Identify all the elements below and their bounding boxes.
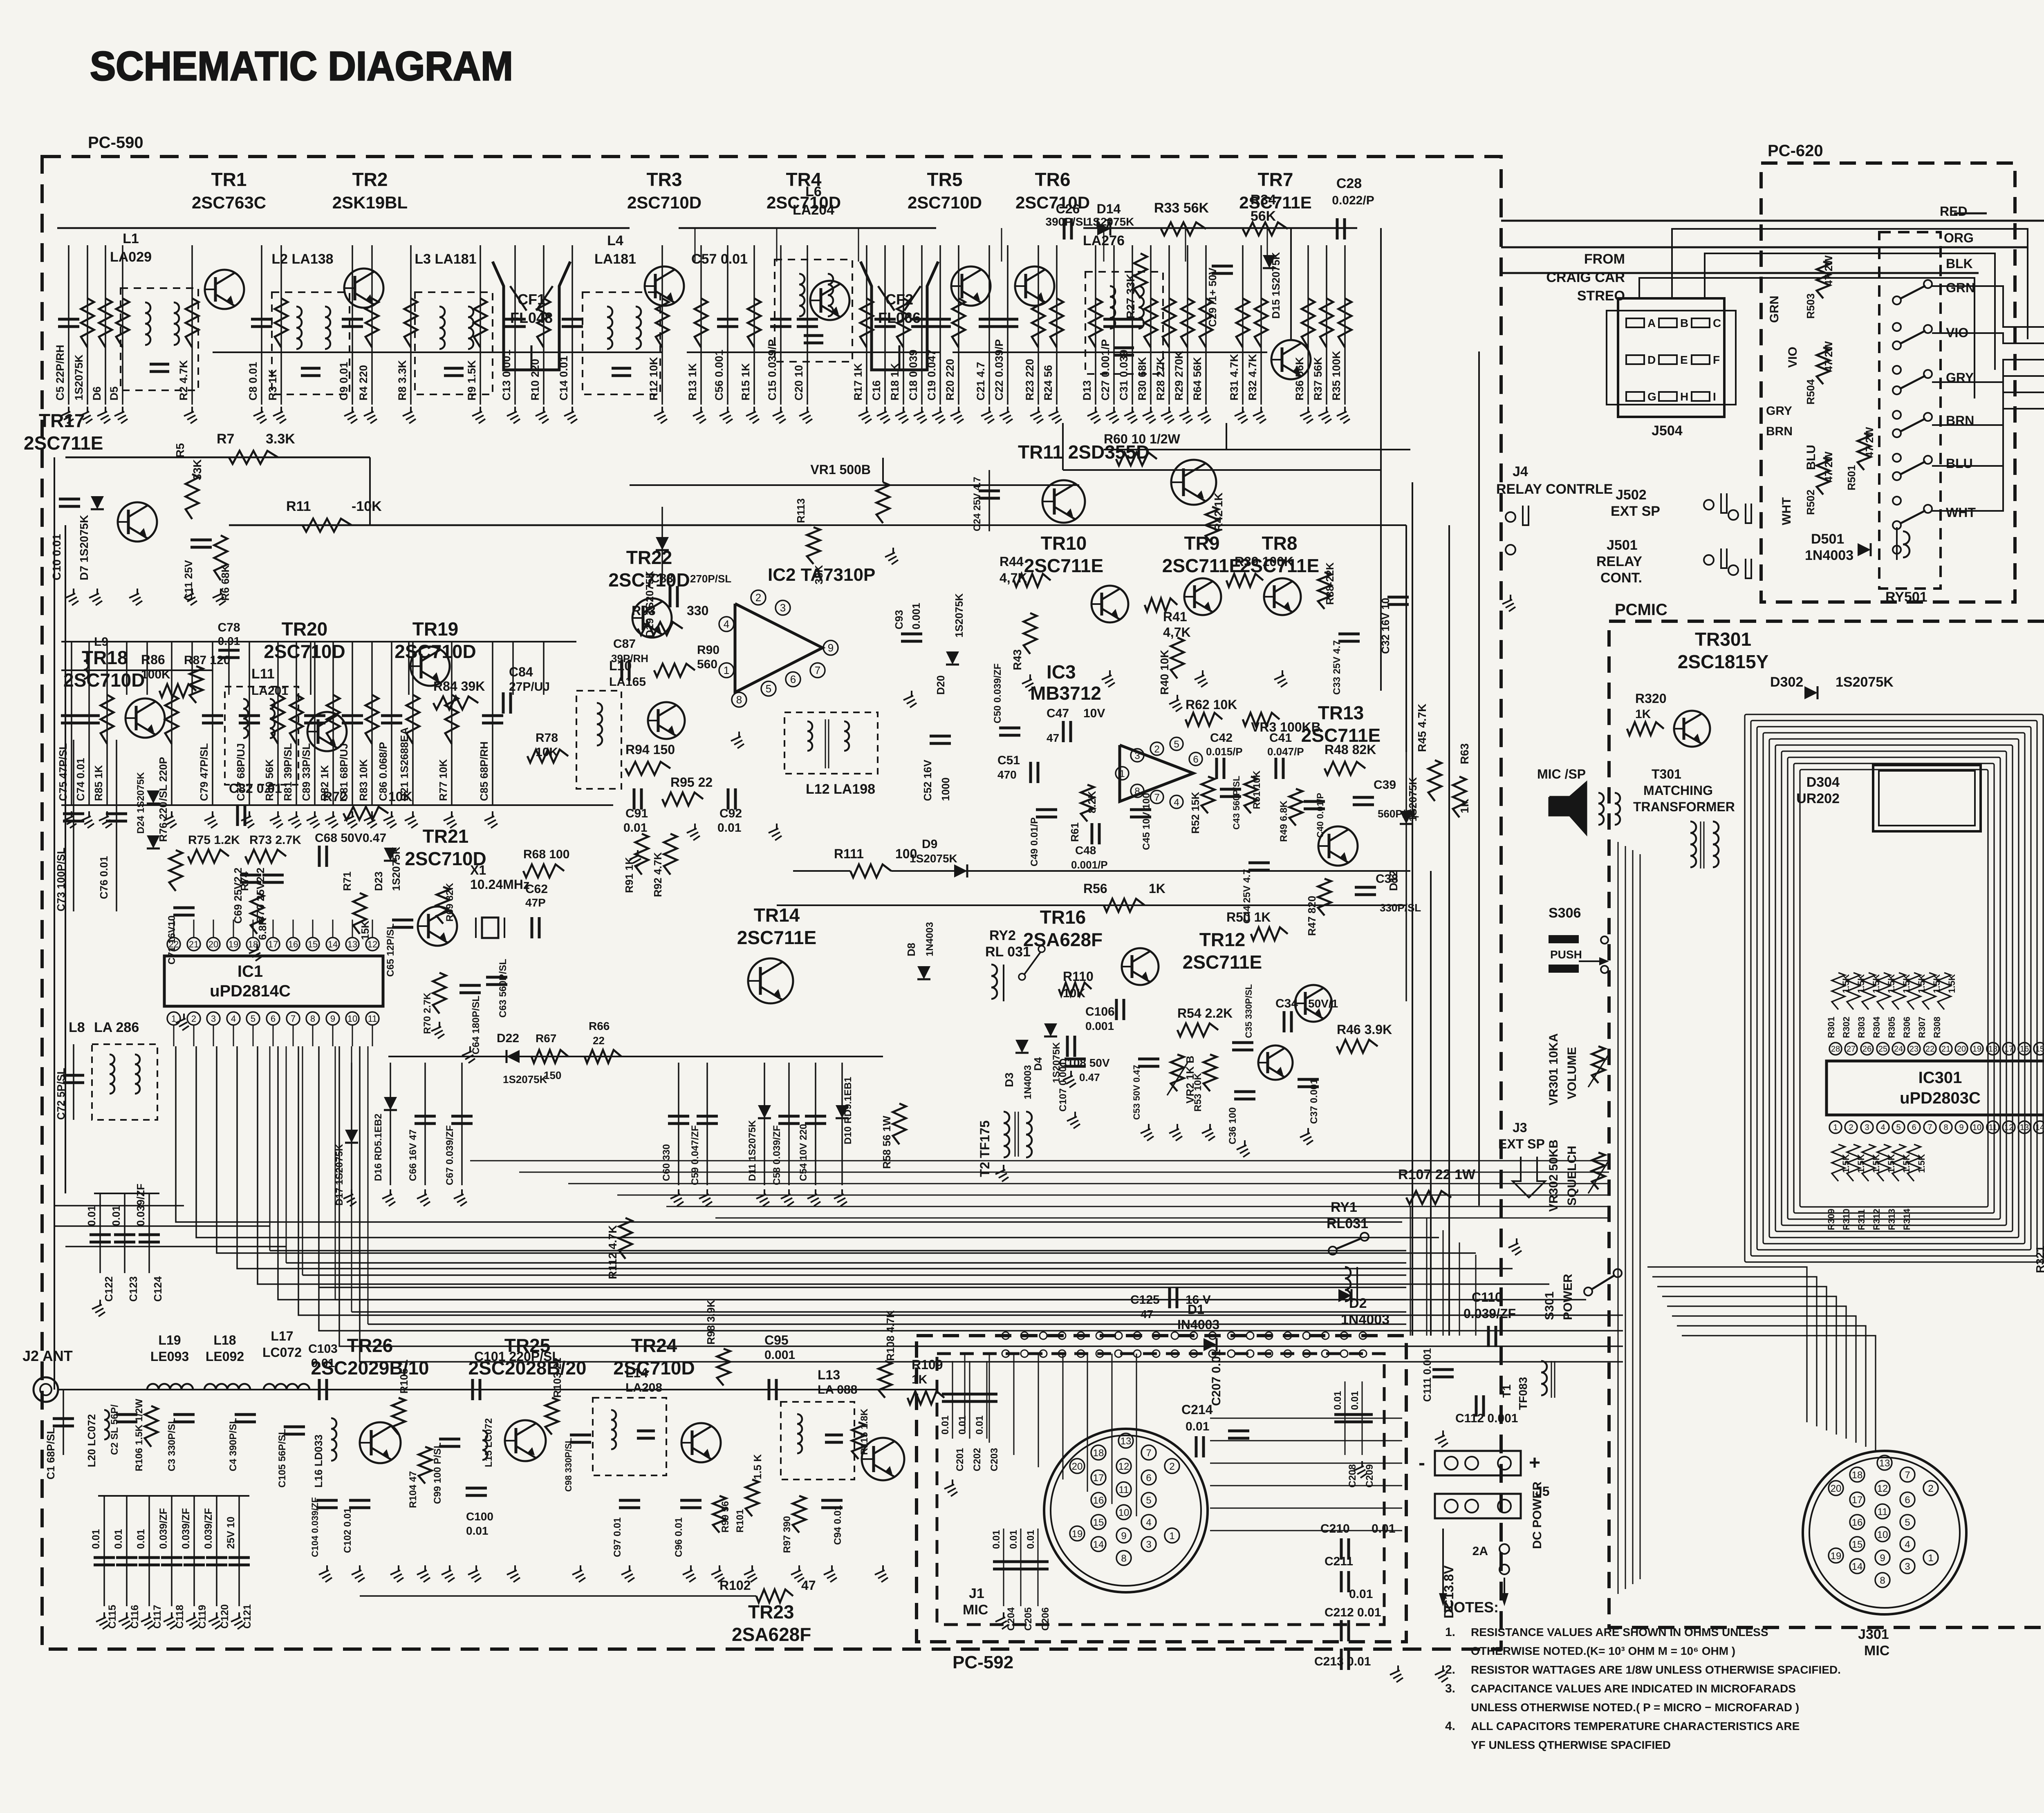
svg-text:L15 LC072: L15 LC072	[483, 1418, 494, 1467]
svg-text:R23 220: R23 220	[1024, 359, 1036, 401]
relay switch contact	[1893, 472, 1901, 480]
svg-text:R7: R7	[217, 431, 234, 447]
svg-text:0.01: 0.01	[1332, 1391, 1343, 1410]
svg-text:L16 LD033: L16 LD033	[312, 1435, 325, 1488]
svg-text:C43 560P/SL: C43 560P/SL	[1231, 776, 1242, 830]
svg-text:TR16: TR16	[1040, 906, 1086, 928]
svg-text:3: 3	[1146, 1539, 1151, 1550]
J1 pin 12	[1116, 1459, 1131, 1473]
transistor TR22	[632, 598, 672, 638]
inductor L9	[84, 652, 88, 661]
svg-text:R67: R67	[536, 1032, 556, 1045]
IC301 pin 4	[1877, 1121, 1889, 1133]
svg-text:4: 4	[231, 1014, 236, 1024]
capacitor C117 0.01	[148, 1496, 150, 1606]
transistor TR12b	[1258, 1045, 1293, 1080]
ground row IC1 right	[351, 1189, 352, 1195]
svg-text:R104 47: R104 47	[408, 1471, 419, 1508]
IC3 pin 8	[1131, 784, 1144, 797]
wire drop a	[1062, 423, 1064, 470]
svg-text:C50 0.039/ZF: C50 0.039/ZF	[992, 663, 1003, 723]
component C19 0.047	[939, 245, 941, 405]
svg-text:TR9: TR9	[1184, 533, 1220, 554]
svg-text:DC POWER: DC POWER	[1531, 1482, 1544, 1549]
IC2 pin 9	[823, 640, 838, 655]
svg-text:R66: R66	[589, 1020, 610, 1032]
IC2 pin 7	[810, 663, 825, 678]
svg-text:SQUELCH: SQUELCH	[1565, 1146, 1579, 1206]
svg-text:R503: R503	[1804, 293, 1817, 319]
svg-text:17: 17	[1852, 1495, 1863, 1506]
svg-text:0.039/ZF: 0.039/ZF	[134, 1184, 147, 1226]
inductor L15 LC072	[482, 1430, 487, 1440]
svg-text:C211: C211	[1325, 1555, 1353, 1568]
svg-text:D15 1S2075K: D15 1S2075K	[1270, 252, 1282, 319]
svg-text:D11 1S2075K: D11 1S2075K	[747, 1120, 758, 1181]
ground squelch	[1029, 674, 1031, 680]
svg-text:GRN: GRN	[1946, 280, 1975, 295]
resistor array R301-R308	[1832, 973, 1845, 1009]
svg-text:C31 0.039: C31 0.039	[1118, 349, 1130, 401]
wire RED	[1501, 220, 2044, 222]
svg-text:EXT SP: EXT SP	[1498, 1137, 1545, 1151]
svg-text:RY2: RY2	[989, 928, 1016, 943]
svg-text:18: 18	[1988, 1045, 1997, 1054]
IC1 pin 10	[346, 1012, 359, 1025]
transformer L11 LA201	[225, 687, 298, 785]
svg-text:12: 12	[368, 939, 377, 949]
svg-text:1.: 1.	[1445, 1625, 1455, 1639]
svg-text:C42: C42	[1210, 731, 1233, 745]
svg-text:12: 12	[2004, 1123, 2013, 1132]
resistor R47 820	[1318, 879, 1331, 915]
svg-text:2SC763C: 2SC763C	[192, 193, 266, 212]
svg-text:19: 19	[1831, 1551, 1842, 1562]
nested wiring loops PCMIC	[1745, 714, 2043, 1262]
svg-text:R102: R102	[719, 1578, 751, 1593]
svg-text:0.01: 0.01	[623, 821, 647, 835]
svg-text:OTHERWISE NOTED.(K= 10³ OHM: OTHERWISE NOTED.(K= 10³ OHM M = 10⁶ OHM …	[1471, 1645, 1735, 1657]
svg-text:C29 /1+ 50V: C29 /1+ 50V	[1206, 267, 1219, 327]
svg-text:2SK19BL: 2SK19BL	[332, 193, 408, 212]
capacitor C36 6.3V 100	[1234, 1090, 1255, 1093]
svg-text:17: 17	[2004, 1045, 2013, 1054]
capacitor C105 56P/SL	[284, 1426, 305, 1428]
svg-text:CF1: CF1	[518, 291, 545, 308]
resistor R66 22	[585, 1050, 621, 1063]
board outline PC-592	[917, 1336, 1406, 1642]
IC301 pin 27	[1845, 1043, 1857, 1055]
svg-text:R84 39K: R84 39K	[433, 679, 485, 694]
svg-text:1K: 1K	[912, 1373, 928, 1386]
svg-text:C3 330P/SL: C3 330P/SL	[166, 1418, 177, 1471]
svg-text:2: 2	[1154, 744, 1159, 755]
svg-text:J501: J501	[1607, 537, 1638, 553]
svg-text:LA201: LA201	[251, 684, 288, 698]
svg-text:D17 1S2075K: D17 1S2075K	[334, 1144, 345, 1206]
IC1 pin 11	[366, 1012, 379, 1025]
J301 pin 8	[1875, 1573, 1890, 1587]
svg-text:R32 4.7K: R32 4.7K	[1246, 354, 1259, 401]
svg-text:1.5K: 1.5K	[1916, 1154, 1927, 1173]
svg-text:LA 286: LA 286	[94, 1020, 139, 1035]
relay switch contact	[1893, 429, 1901, 437]
svg-text:C87: C87	[613, 637, 636, 651]
filter CF2 FL066	[861, 262, 938, 370]
svg-text:27P/UJ: 27P/UJ	[509, 680, 550, 694]
diode D20 1S2075K	[946, 651, 959, 665]
svg-text:L14: L14	[625, 1365, 648, 1380]
IC1 pin 17	[267, 938, 280, 951]
svg-text:15: 15	[2035, 1045, 2044, 1054]
svg-text:C84: C84	[509, 665, 533, 679]
svg-text:TR2: TR2	[352, 169, 388, 190]
component C79 47P/SL	[212, 642, 213, 805]
capacitor C33 25V	[1338, 633, 1360, 636]
svg-text:1S2075K: 1S2075K	[390, 846, 402, 891]
IC1 pin 19	[227, 938, 240, 951]
capacitor C10 0.01	[59, 498, 80, 501]
svg-text:6: 6	[1146, 1473, 1151, 1484]
svg-text:C47: C47	[1047, 707, 1069, 720]
svg-text:C45 10V 100: C45 10V 100	[1141, 793, 1152, 850]
svg-text:4.: 4.	[1445, 1719, 1455, 1733]
resistor R95 22	[662, 792, 703, 806]
wire long bus 3	[65, 1246, 286, 1247]
fuse 2A	[1499, 1544, 1509, 1554]
svg-text:330: 330	[687, 603, 708, 618]
svg-text:47: 47	[1047, 732, 1059, 744]
svg-text:BLU: BLU	[1946, 456, 1973, 471]
wire squelch link 1	[1104, 449, 1410, 450]
svg-text:16: 16	[2020, 1045, 2029, 1054]
relay switch contact	[1893, 341, 1901, 349]
svg-text:SCHEMATIC DIAGRAM: SCHEMATIC DIAGRAM	[90, 43, 513, 89]
svg-text:6: 6	[271, 1014, 276, 1024]
svg-text:1000: 1000	[939, 777, 952, 801]
J301 pin 16	[1850, 1515, 1865, 1529]
svg-text:R18 1K: R18 1K	[889, 363, 901, 401]
transformer T301	[1690, 821, 1696, 833]
resistor R48 82K	[1325, 762, 1365, 775]
svg-text:R504: R504	[1804, 379, 1817, 405]
svg-text:C82 0.01: C82 0.01	[229, 781, 282, 796]
svg-text:TF083: TF083	[1517, 1377, 1529, 1410]
svg-text:9: 9	[1959, 1123, 1963, 1132]
svg-text:CF2: CF2	[885, 291, 913, 308]
component C75 47P/SL	[71, 642, 72, 805]
svg-text:R99 56: R99 56	[720, 1501, 731, 1533]
resistor R73 2.7K	[245, 850, 286, 863]
diode D7 1S2075K	[91, 496, 104, 509]
svg-text:19: 19	[1972, 1045, 1981, 1054]
svg-text:R85 1K: R85 1K	[92, 765, 105, 801]
relay switch contact	[1893, 411, 1901, 419]
svg-text:0.001/P: 0.001/P	[1071, 859, 1108, 871]
relay coil RY501	[1903, 531, 1910, 544]
resistor R103 22	[545, 1398, 558, 1435]
svg-text:C52 16V: C52 16V	[921, 759, 934, 801]
svg-text:C20 10: C20 10	[793, 365, 805, 401]
svg-text:1: 1	[724, 664, 729, 676]
svg-text:5: 5	[1896, 1123, 1901, 1132]
svg-text:R10 220: R10 220	[529, 359, 541, 401]
svg-text:C2 SL 56P/: C2 SL 56P/	[109, 1404, 120, 1455]
component R35 100K	[1344, 245, 1346, 405]
svg-text:R58 56 1W: R58 56 1W	[881, 1115, 893, 1169]
svg-text:C: C	[1713, 317, 1721, 329]
svg-text:IC3: IC3	[1047, 661, 1076, 683]
svg-text:EXT SP: EXT SP	[1611, 504, 1660, 519]
capacitor C70 25V2.2	[262, 874, 284, 877]
svg-text:L13: L13	[818, 1368, 840, 1382]
svg-text:ORG: ORG	[1944, 231, 1974, 245]
svg-text:21: 21	[189, 939, 199, 949]
capacitor C100 0.01	[466, 1487, 487, 1490]
wire mid stage bus bottom	[61, 804, 613, 806]
svg-text:R15 1K: R15 1K	[740, 363, 752, 401]
svg-text:R101: R101	[735, 1509, 746, 1533]
capacitor C91 0.01	[633, 788, 636, 810]
capacitor cluster C201-C203	[952, 1361, 953, 1439]
svg-text:0.01: 0.01	[1372, 1522, 1395, 1535]
resistor R51 10K	[1244, 777, 1257, 813]
svg-text:R60 10 1/2W: R60 10 1/2W	[1104, 432, 1181, 446]
capacitor C35 330P/SL	[1232, 1041, 1253, 1044]
svg-text:R50 1K: R50 1K	[1226, 910, 1271, 924]
capacitor C72 5P/SL	[73, 1044, 74, 1120]
svg-text:10V: 10V	[1083, 707, 1105, 720]
svg-text:D16 RD5.1EB2: D16 RD5.1EB2	[373, 1114, 384, 1181]
svg-text:7: 7	[815, 664, 820, 676]
svg-text:4: 4	[1905, 1539, 1910, 1550]
resistor R70 2.7K	[433, 973, 446, 1014]
svg-text:19: 19	[229, 939, 238, 949]
wire vertical x3378b	[1380, 368, 1382, 691]
J1 pin 6	[1141, 1470, 1156, 1485]
capacitor C4 390P/SL	[235, 1413, 256, 1416]
svg-text:R86: R86	[141, 652, 165, 667]
svg-text:RY501: RY501	[1885, 589, 1927, 605]
IC1 pin 1	[167, 1012, 180, 1025]
svg-text:0.01: 0.01	[85, 1205, 98, 1226]
svg-text:C102 0.01: C102 0.01	[342, 1508, 353, 1553]
IC1 pin 22	[167, 938, 180, 951]
svg-text:R27 33K: R27 33K	[1124, 273, 1137, 319]
wire mid stage bus 3	[61, 669, 213, 671]
IC1 pin 12	[366, 938, 379, 951]
svg-text:C67 0.039/ZF: C67 0.039/ZF	[444, 1125, 455, 1185]
svg-text:C75 47P/SL: C75 47P/SL	[57, 743, 69, 801]
svg-text:STREO: STREO	[1577, 288, 1625, 304]
board outline PC-592 inner	[937, 1354, 1384, 1625]
svg-text:0.039/ZF: 0.039/ZF	[203, 1508, 214, 1549]
IC3 pin 7	[1150, 790, 1163, 804]
component R13 1K	[700, 245, 702, 405]
capacitor C2 SL 56P	[116, 1413, 137, 1416]
svg-text:C62: C62	[525, 882, 548, 896]
capacitor C63 560P/SL	[486, 976, 507, 979]
svg-text:D24 1S2075K: D24 1S2075K	[135, 772, 146, 834]
svg-text:0.001: 0.001	[910, 603, 922, 629]
wire squelch link 2	[1063, 469, 1381, 471]
svg-text:R69 82K: R69 82K	[444, 883, 455, 922]
svg-text:27: 27	[1847, 1045, 1856, 1054]
capacitor C68 50V0.47	[318, 846, 321, 867]
J301 pin 10	[1875, 1527, 1890, 1542]
transistor TR19	[410, 647, 450, 686]
inductor L20 LC072	[104, 1410, 109, 1420]
svg-text:MB3712: MB3712	[1030, 683, 1101, 704]
wire long verticals right	[1412, 482, 1413, 1336]
component R8 3.3K	[410, 245, 412, 405]
resistor R92 4.7K	[664, 834, 677, 875]
svg-text:C66 16V 47: C66 16V 47	[408, 1129, 419, 1181]
transistor TR13	[1318, 826, 1358, 866]
board outline PC-620	[1761, 163, 2015, 602]
svg-text:R2 4.7K: R2 4.7K	[177, 360, 190, 401]
svg-text:YF UNLESS QTHERWISE SPACIFI: YF UNLESS QTHERWISE SPACIFIED	[1471, 1739, 1671, 1751]
svg-text:VR1 500B: VR1 500B	[810, 462, 871, 477]
svg-text:13: 13	[2020, 1123, 2029, 1132]
IC1 pin 7	[287, 1012, 300, 1025]
svg-text:TR301: TR301	[1695, 629, 1751, 650]
svg-text:1S2075K: 1S2075K	[953, 593, 965, 638]
component R15 1K	[753, 245, 755, 405]
svg-text:R71: R71	[341, 871, 353, 891]
svg-text:16: 16	[288, 939, 298, 949]
svg-text:C15 0.039/P: C15 0.039/P	[766, 339, 778, 401]
component R85 1K	[106, 642, 108, 805]
svg-text:22: 22	[593, 1034, 605, 1047]
svg-text:22: 22	[169, 939, 179, 949]
board outline PCMIC	[1609, 621, 2044, 1627]
svg-text:2: 2	[191, 1014, 196, 1024]
transistor TR10b	[1091, 586, 1128, 622]
wire drop b	[1226, 423, 1227, 450]
component C74 0.01	[88, 642, 90, 805]
resistor R52 15K	[1201, 777, 1215, 813]
capacitor C48 0.001/P	[1091, 823, 1094, 844]
resistor R104 47	[419, 1447, 432, 1484]
component 1S2075K	[87, 245, 88, 405]
inductor L16 LD033	[331, 1418, 336, 1429]
svg-text:PC-592: PC-592	[953, 1652, 1013, 1672]
resistor R99 56	[713, 1496, 726, 1533]
svg-text:L17: L17	[271, 1329, 293, 1343]
svg-text:3: 3	[1134, 750, 1140, 761]
svg-text:18: 18	[248, 939, 258, 949]
svg-text:D12: D12	[1387, 870, 1400, 891]
svg-text:8: 8	[1943, 1123, 1948, 1132]
svg-text:0.015/P: 0.015/P	[1206, 745, 1243, 758]
svg-text:R63: R63	[1458, 743, 1471, 764]
svg-text:R28 27K: R28 27K	[1154, 357, 1167, 401]
svg-text:4: 4	[1880, 1123, 1885, 1132]
svg-text:C9 0.01: C9 0.01	[338, 362, 350, 401]
component R3 1K	[280, 245, 282, 405]
svg-text:R308: R308	[1932, 1016, 1942, 1038]
svg-text:R95 22: R95 22	[670, 775, 713, 790]
resistor R68 100	[523, 864, 564, 877]
svg-text:C26: C26	[1056, 201, 1080, 216]
svg-text:TR14: TR14	[754, 904, 800, 926]
wire TR7 branch	[1290, 229, 1292, 340]
ground TR12 area	[1074, 1112, 1076, 1117]
ground J3	[1516, 1238, 1517, 1244]
svg-text:C21 4.7: C21 4.7	[975, 362, 987, 401]
svg-text:14: 14	[1093, 1539, 1104, 1550]
svg-text:1S2075K: 1S2075K	[503, 1073, 547, 1086]
svg-text:20: 20	[1072, 1461, 1083, 1472]
svg-text:9: 9	[1880, 1553, 1885, 1564]
svg-text:L19: L19	[158, 1333, 181, 1347]
resistor R112 4.7K	[619, 1218, 632, 1259]
wire TX bus	[286, 1389, 936, 1390]
capacitor C124 0.039/ZF	[148, 1193, 150, 1273]
wire BLK	[1501, 272, 1979, 274]
transistor TR18	[126, 698, 165, 738]
capacitor bank C115-C121	[98, 1495, 249, 1497]
svg-text:R502: R502	[1804, 490, 1817, 515]
svg-text:3: 3	[1905, 1561, 1910, 1572]
resistor R84 39K	[433, 696, 478, 710]
wire mid stage verticals	[126, 642, 128, 695]
capacitor C83 270P/SL	[669, 586, 672, 607]
transistor TR22 buffer	[648, 702, 685, 739]
svg-text:26: 26	[1862, 1045, 1871, 1054]
wire mid stage bus top	[61, 641, 576, 642]
transistor TR17	[118, 502, 157, 542]
IC301 pin 3	[1861, 1121, 1873, 1133]
capacitor C76 0.01	[116, 740, 117, 911]
ground T2	[1003, 1165, 1004, 1171]
J1 pin 15	[1091, 1515, 1106, 1529]
capacitor C38 330P/SL	[1355, 886, 1376, 889]
svg-text:C8 0.01: C8 0.01	[247, 362, 259, 401]
IC1 pin 3	[207, 1012, 220, 1025]
J1 pin 20	[1070, 1459, 1085, 1473]
svg-text:0.01: 0.01	[940, 1415, 951, 1435]
svg-text:C92: C92	[719, 807, 742, 820]
svg-text:TR19: TR19	[412, 618, 458, 640]
svg-text:X1: X1	[470, 863, 486, 877]
diode D19 1S2075K	[661, 507, 663, 580]
svg-text:RL 031: RL 031	[985, 944, 1031, 960]
svg-text:15K: 15K	[359, 920, 371, 940]
svg-text:3: 3	[1865, 1123, 1869, 1132]
svg-text:R87 120: R87 120	[184, 654, 230, 667]
wire fan lower	[270, 1250, 1406, 1251]
capacitor C1 68P/SL	[63, 1390, 64, 1455]
IC1 pin 21	[187, 938, 200, 951]
svg-text:C210: C210	[1320, 1522, 1350, 1535]
svg-text:R109: R109	[912, 1357, 943, 1372]
resistor R75 1.2K	[188, 850, 229, 863]
svg-text:R31 4.7K: R31 4.7K	[1228, 354, 1240, 401]
svg-text:0.01: 0.01	[1025, 1530, 1036, 1549]
svg-text:PC-590: PC-590	[88, 134, 143, 152]
svg-text:47: 47	[801, 1578, 816, 1593]
wire long bus 1	[54, 1205, 184, 1206]
connector J301 MIC	[1803, 1451, 1966, 1614]
svg-text:24: 24	[1894, 1045, 1903, 1054]
svg-text:TR26: TR26	[347, 1335, 393, 1356]
svg-text:C103: C103	[308, 1342, 338, 1356]
svg-text:R311: R311	[1856, 1209, 1867, 1230]
svg-text:0.022/P: 0.022/P	[1332, 194, 1374, 207]
capacitor C116 0.01	[126, 1496, 128, 1606]
